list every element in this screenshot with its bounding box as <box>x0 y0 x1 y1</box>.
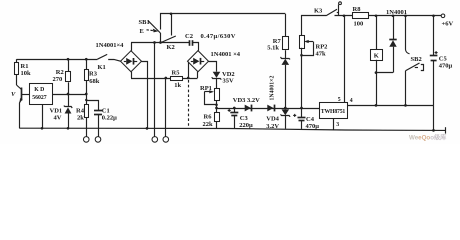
wire pin4 bus <box>347 105 434 107</box>
svg-text:R2: R2 <box>56 69 64 76</box>
zener lower on x=285 <box>281 109 291 128</box>
label R1 10k <box>21 63 32 77</box>
svg-text:100: 100 <box>354 20 364 27</box>
svg-text:270: 270 <box>53 76 63 83</box>
capacitor C4 <box>293 108 305 129</box>
node junction 68,59.2 <box>67 58 70 61</box>
capacitor C1 <box>86 101 102 137</box>
wire bridge1 right to rail <box>142 62 148 129</box>
svg-text:0.22μ: 0.22μ <box>102 115 117 122</box>
wire +6V rail <box>368 15 441 17</box>
svg-text:SB2: SB2 <box>411 56 422 63</box>
wire left bus y=59.2 <box>17 59 98 61</box>
svg-text:SB1: SB1 <box>139 19 150 26</box>
wire top-left net y=13.8 <box>161 14 286 30</box>
svg-text:TWH8751: TWH8751 <box>321 109 346 115</box>
label E arrow annotation <box>140 28 159 35</box>
wire R7 top corner <box>285 14 287 37</box>
node junction 285.3,108 <box>284 107 287 110</box>
node junction 376,72.6 <box>375 71 378 74</box>
label C1 0.22u <box>102 107 117 121</box>
svg-text:3: 3 <box>336 122 339 128</box>
svg-text:1N4001×2: 1N4001×2 <box>270 76 276 101</box>
svg-text:4: 4 <box>350 98 353 104</box>
node junction 42,129 <box>41 127 44 130</box>
node junction 301.5,108 <box>300 107 303 110</box>
svg-text:5.1k: 5.1k <box>267 44 279 51</box>
svg-text:K2: K2 <box>167 44 175 51</box>
wire bottom rail <box>19 128 445 130</box>
svg-text:K: K <box>374 52 379 59</box>
svg-text:56027: 56027 <box>32 95 47 101</box>
terminal circle mid B <box>163 137 169 143</box>
wire bridge2 left vertex drop <box>188 62 190 78</box>
node junction 86.25,94 <box>85 93 88 96</box>
svg-text:K3: K3 <box>314 8 323 15</box>
terminal circle mid A <box>152 137 158 143</box>
node junction 405.5,105.4 <box>404 104 407 107</box>
transistor V <box>17 85 30 128</box>
label C2 value <box>185 33 236 40</box>
svg-text:R1: R1 <box>21 63 29 70</box>
node junction 68,94 <box>67 93 70 96</box>
wire coil-diode link <box>376 72 393 74</box>
wire dashed separator <box>188 80 190 129</box>
resistor R2 <box>66 59 71 94</box>
label R2 270 <box>53 69 64 83</box>
capacitor C2 <box>190 40 199 50</box>
node junction 393,15.8 <box>392 14 395 17</box>
svg-text:1k: 1k <box>174 82 181 89</box>
resistor R1 <box>15 59 19 85</box>
wire KD output y=94 <box>52 94 86 96</box>
wire pin3 <box>333 118 335 130</box>
wire bridge2 right to VD2 <box>209 62 217 72</box>
zener VD2 <box>212 72 222 89</box>
wire bridge1 top stub <box>131 43 133 51</box>
diode VD4 on bus <box>267 105 274 112</box>
switch SB1 blade <box>148 21 160 43</box>
svg-text:R4: R4 <box>76 108 85 115</box>
svg-text:5: 5 <box>338 97 341 103</box>
svg-text:22k: 22k <box>203 121 214 128</box>
label VD2 35V <box>222 71 235 85</box>
diode VD3 on bus <box>245 105 252 112</box>
wire terminal stem x=165.8 <box>165 78 167 137</box>
node junction 433.5,15.8 <box>432 14 435 17</box>
svg-text:VD1: VD1 <box>50 108 63 115</box>
wire K3 net <box>302 16 327 36</box>
node junction 344,15.8 <box>343 14 346 17</box>
svg-text:C2: C2 <box>185 33 193 40</box>
resistor R7 <box>283 37 289 59</box>
zener upper on x=285 <box>281 57 291 108</box>
resistor R5 <box>171 77 183 81</box>
wire rail end tick <box>445 127 447 133</box>
zener VD1 <box>64 94 72 128</box>
label R7 5.1k <box>267 38 281 52</box>
svg-text:E: E <box>140 28 144 35</box>
wire C5 branch to rail <box>433 105 435 130</box>
wire middle bus y=108 <box>217 108 320 110</box>
node junction 68,129 <box>67 127 70 130</box>
svg-text:WeeQoo级库: WeeQoo级库 <box>409 134 447 142</box>
node junction 188.2,78 <box>187 77 190 80</box>
label C5 470u <box>439 56 453 70</box>
svg-text:V: V <box>11 91 16 98</box>
label VD4 3.2V <box>266 116 279 130</box>
relay coil K <box>371 16 383 106</box>
svg-text:R6: R6 <box>204 114 213 121</box>
svg-text:1N4001 ×4: 1N4001 ×4 <box>211 51 241 58</box>
svg-text:2k: 2k <box>77 115 84 122</box>
node junction 165.8,78 <box>164 77 167 80</box>
svg-text:VD3 3.2V: VD3 3.2V <box>233 97 260 104</box>
svg-text:47k: 47k <box>316 50 327 57</box>
resistor R8 <box>353 13 369 19</box>
node junction at 171,13.8 <box>170 13 173 16</box>
resistor R3 <box>85 59 89 94</box>
svg-text:K1: K1 <box>98 64 106 71</box>
terminal circle left B <box>95 137 101 143</box>
label C3 220u <box>239 115 253 129</box>
node junction 216.5,108 <box>215 107 218 110</box>
bridge rectifier 2 <box>188 51 209 72</box>
svg-text:R8: R8 <box>353 6 362 13</box>
node junction 160.5,42.5 <box>159 41 162 44</box>
capacitor C5 <box>430 16 438 106</box>
svg-text:1N4001: 1N4001 <box>386 9 407 16</box>
node junction 86.25,59.2 <box>85 58 88 61</box>
potentiometer RP1 <box>204 89 219 113</box>
switch K3 <box>326 2 352 16</box>
svg-text:220μ: 220μ <box>239 122 253 129</box>
label R6 22k <box>203 114 214 129</box>
switch SB2 <box>406 16 424 106</box>
node junction 376,105.4 <box>375 104 378 107</box>
svg-text:470μ: 470μ <box>306 123 320 130</box>
diode 1N4001 freewheel <box>389 16 396 73</box>
switch K2 <box>161 14 176 43</box>
node junction 86.25,100 <box>85 99 87 101</box>
bridge rectifier 1 <box>121 51 142 72</box>
node junction 433.5,129 <box>432 129 435 132</box>
node junction 147,129 <box>146 127 149 130</box>
switch K1 <box>97 54 120 61</box>
wire KD ground pin <box>42 104 44 128</box>
label RP2 47k <box>316 43 328 57</box>
svg-text:1N4001×4: 1N4001×4 <box>96 42 125 49</box>
svg-text:35V: 35V <box>223 78 235 85</box>
wire bridge2 bottom stub <box>197 72 199 78</box>
node junction 154.5,42.5 <box>153 41 156 44</box>
label C4 470u <box>306 116 320 130</box>
wire y=42.5 <box>131 42 189 44</box>
node junction 405.5,15.8 <box>404 14 407 17</box>
svg-text:RP1: RP1 <box>200 85 212 92</box>
wire pin5 <box>344 16 346 103</box>
IC TWH8751 box <box>320 103 348 119</box>
wire terminal stem x=154.8 <box>154 43 156 137</box>
terminal +6V <box>441 14 445 18</box>
svg-text:R3: R3 <box>89 71 98 78</box>
wire bridge1 bottom stub <box>131 72 133 78</box>
svg-text:0.47μ/630V: 0.47μ/630V <box>201 33 236 40</box>
label R8 100 <box>353 6 364 27</box>
terminal circle left A <box>83 137 89 143</box>
resistor R4 <box>85 94 89 137</box>
svg-text:C1: C1 <box>102 107 110 114</box>
label VD1 4V <box>50 108 63 122</box>
svg-text:4V: 4V <box>54 115 62 122</box>
capacitor C3 <box>228 108 239 129</box>
svg-text:C3: C3 <box>240 115 249 122</box>
svg-text:+6V: +6V <box>442 20 454 27</box>
svg-text:470μ: 470μ <box>439 62 453 69</box>
svg-text:K D: K D <box>34 87 44 93</box>
svg-text:RP2: RP2 <box>316 43 328 50</box>
IC KD56027 box <box>30 84 53 105</box>
label R4 2k <box>76 108 85 122</box>
node junction 301.5,55.2 <box>300 54 303 57</box>
wire AC bus y=78 <box>131 78 198 80</box>
label R3 68k <box>89 71 100 85</box>
resistor R6 <box>215 113 220 129</box>
node junction 376,15.8 <box>375 14 378 17</box>
node junction 216.5,104.8 <box>215 104 218 107</box>
svg-text:10k: 10k <box>21 70 32 77</box>
node junction 234.3,108 <box>233 107 236 110</box>
label R5 1k <box>172 70 182 90</box>
svg-text:R5: R5 <box>172 70 181 77</box>
svg-text:68k: 68k <box>89 78 100 85</box>
svg-text:VD4: VD4 <box>266 116 279 123</box>
potentiometer RP2 <box>300 36 314 109</box>
